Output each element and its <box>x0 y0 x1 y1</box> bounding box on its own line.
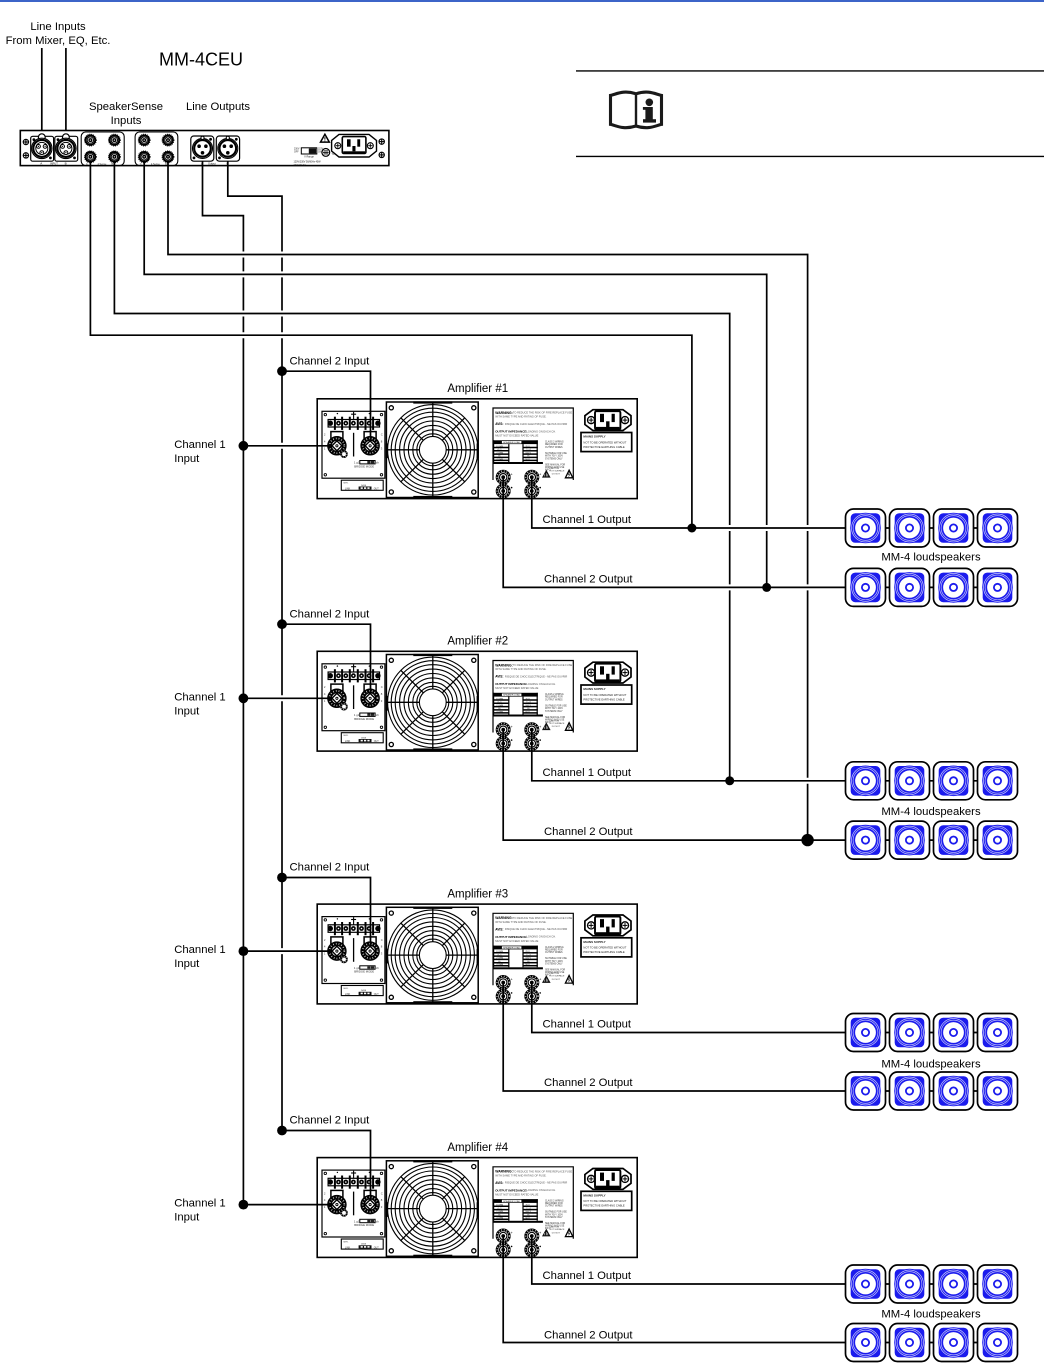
rule below manual icon <box>576 155 1044 157</box>
junction: sense amp1 ch1 <box>687 524 696 533</box>
svg-text:A: A <box>40 162 42 166</box>
junction: amp2 ch1 input <box>239 693 249 703</box>
wire: amp4 channel 1 input <box>243 1204 332 1206</box>
svg-text:Line Outputs: Line Outputs <box>186 101 250 113</box>
speakers: amp4 ch2 <box>846 1324 1018 1362</box>
XLR line input B <box>50 134 78 166</box>
junction: amp4 ch2 input <box>277 1126 287 1136</box>
svg-text:A-: A- <box>86 163 89 166</box>
voltage selector switch <box>294 148 324 167</box>
svg-text:Channel 2 Output: Channel 2 Output <box>544 1330 633 1342</box>
junction: amp1 ch1 input <box>239 441 249 451</box>
XLR line output A <box>191 136 216 166</box>
wire: amp2 channel 1 input <box>243 697 332 699</box>
rack screws left <box>23 139 28 158</box>
speakers: amp3 ch1 <box>846 1014 1018 1052</box>
IEC power inlet (unit) <box>332 134 377 157</box>
svg-text:MM-4 loudspeakers: MM-4 loudspeakers <box>881 1309 981 1321</box>
junction: sense amp2 ch1 <box>725 776 734 785</box>
top blue rule <box>0 0 1044 2</box>
amplifier #3 <box>317 904 637 1004</box>
wire: line output A bus (channel 1) <box>203 161 244 1205</box>
svg-text:Channel 1 Output: Channel 1 Output <box>543 514 632 526</box>
wire: amp1 channel 2 output <box>503 477 1016 587</box>
wire: SpeakerSense 4 to amp2 ch2 output <box>168 161 808 840</box>
svg-text:Channel 2 Output: Channel 2 Output <box>544 573 633 585</box>
svg-text:Amplifier #4: Amplifier #4 <box>447 1142 508 1154</box>
svg-text:Input: Input <box>174 958 200 970</box>
wire: amp1 channel 1 input <box>243 445 332 447</box>
svg-text:Amplifier #3: Amplifier #3 <box>447 888 508 900</box>
svg-text:Line Inputs: Line Inputs <box>30 21 86 33</box>
svg-text:Amplifier #1: Amplifier #1 <box>447 383 508 395</box>
svg-text:Channel 1 Output: Channel 1 Output <box>543 1270 632 1282</box>
svg-text:Input: Input <box>174 1212 200 1224</box>
svg-text:MM-4 loudspeakers: MM-4 loudspeakers <box>881 806 981 818</box>
speakers: amp2 ch2 <box>846 821 1018 859</box>
svg-text:Channel 2 Input: Channel 2 Input <box>290 608 371 620</box>
speakers: amp1 ch2 <box>846 568 1018 606</box>
svg-text:Channel 2 Input: Channel 2 Input <box>290 862 371 874</box>
wire: amp3 channel 1 input <box>243 950 332 952</box>
svg-text:Input: Input <box>174 705 200 717</box>
wire: line input A drop <box>41 48 43 131</box>
svg-text:Channel 1: Channel 1 <box>174 1198 226 1210</box>
speakers: amp1 ch1 <box>846 509 1018 547</box>
rule above manual icon <box>576 70 1044 72</box>
svg-text:Channel 1: Channel 1 <box>174 944 226 956</box>
wire: amp3 channel 1 output <box>532 982 1016 1032</box>
junction: amp3 ch2 input <box>277 873 287 883</box>
fuse holder <box>322 149 346 157</box>
wire: amp4 channel 2 input <box>282 1131 371 1201</box>
XLR line output B <box>216 136 239 166</box>
svg-text:Amplifier #2: Amplifier #2 <box>447 636 508 648</box>
speakers: amp4 ch1 <box>846 1265 1018 1303</box>
svg-text:INPUT: INPUT <box>50 162 58 166</box>
wire: SpeakerSense 2 to amp2 ch1 output <box>114 161 729 781</box>
wire: SpeakerSense 1 to amp1 ch1 output <box>90 161 692 528</box>
svg-text:MM-4 loudspeakers: MM-4 loudspeakers <box>881 1058 981 1070</box>
warning triangle <box>321 134 330 142</box>
svg-text:Channel 2 Output: Channel 2 Output <box>544 826 633 838</box>
svg-text:C-: C- <box>140 163 143 166</box>
svg-text:Input: Input <box>174 453 200 465</box>
SpeakerSense jack group 2 <box>135 132 178 166</box>
wire: amp3 channel 2 input <box>282 878 371 947</box>
svg-text:Channel 1 Output: Channel 1 Output <box>543 1019 632 1031</box>
wire: amp1 channel 1 output <box>532 477 1016 528</box>
speakers: amp2 ch1 <box>846 762 1018 800</box>
junction: amp2 ch2 input <box>277 619 287 629</box>
svg-text:Output: Output <box>208 162 216 166</box>
svg-text:MM-4 loudspeakers: MM-4 loudspeakers <box>881 552 981 564</box>
svg-text:Channel 2 Input: Channel 2 Input <box>290 355 371 367</box>
wire: line output B bus (channel 2) <box>228 161 282 1131</box>
svg-text:4 Sense: 4 Sense <box>98 163 107 166</box>
junction: amp1 ch2 input <box>277 366 287 376</box>
svg-text:V Range: V Range <box>304 155 314 158</box>
wire: line input B drop <box>65 48 67 131</box>
svg-text:230V: 230V <box>294 149 300 151</box>
manual book icon <box>611 92 662 128</box>
svg-text:From Mixer, EQ, Etc.: From Mixer, EQ, Etc. <box>6 35 111 47</box>
svg-text:OFF: OFF <box>294 152 299 154</box>
svg-text:ON: ON <box>318 152 322 154</box>
svg-text:20W-70.7V: 20W-70.7V <box>294 164 306 167</box>
svg-text:Channel 1 Output: Channel 1 Output <box>543 767 632 779</box>
amplifier #4 <box>317 1158 637 1258</box>
svg-text:SpeakerSense: SpeakerSense <box>89 101 163 113</box>
wire: SpeakerSense 3 to amp1 ch2 output <box>144 161 767 587</box>
amplifier #2 <box>317 651 637 751</box>
amplifier #1 <box>317 399 637 499</box>
MM-4CEU chassis <box>20 131 389 166</box>
wire: amp4 channel 2 output <box>503 1236 1016 1343</box>
svg-text:Channel 1: Channel 1 <box>174 691 226 703</box>
XLR line input A <box>31 134 54 166</box>
svg-text:Inputs: Inputs <box>111 115 142 127</box>
junction: amp4 ch1 input <box>239 1200 249 1210</box>
svg-text:MM-4CEU: MM-4CEU <box>159 50 243 70</box>
wire: amp2 channel 1 output <box>532 730 1016 781</box>
wire: amp1 channel 2 input <box>282 371 371 441</box>
svg-text:Channel 2 Output: Channel 2 Output <box>544 1077 633 1089</box>
svg-text:Channel 2 Input: Channel 2 Input <box>290 1115 371 1127</box>
speakers: amp3 ch2 <box>846 1072 1018 1110</box>
SpeakerSense jack group 1 <box>81 132 124 166</box>
junction: sense amp2 ch2 <box>801 834 813 846</box>
junction: sense amp1 ch2 <box>762 583 771 592</box>
wire: amp4 channel 1 output <box>532 1236 1016 1284</box>
svg-text:4 Sense: 4 Sense <box>151 163 160 166</box>
rack screws right <box>379 139 384 158</box>
wire: amp3 channel 2 output <box>503 982 1016 1091</box>
wire: amp2 channel 2 input <box>282 624 371 694</box>
wire: amp2 channel 2 output <box>503 730 1016 841</box>
junction: amp3 ch1 input <box>239 946 249 956</box>
svg-text:B: B <box>65 162 67 166</box>
svg-text:Channel 1: Channel 1 <box>174 439 226 451</box>
